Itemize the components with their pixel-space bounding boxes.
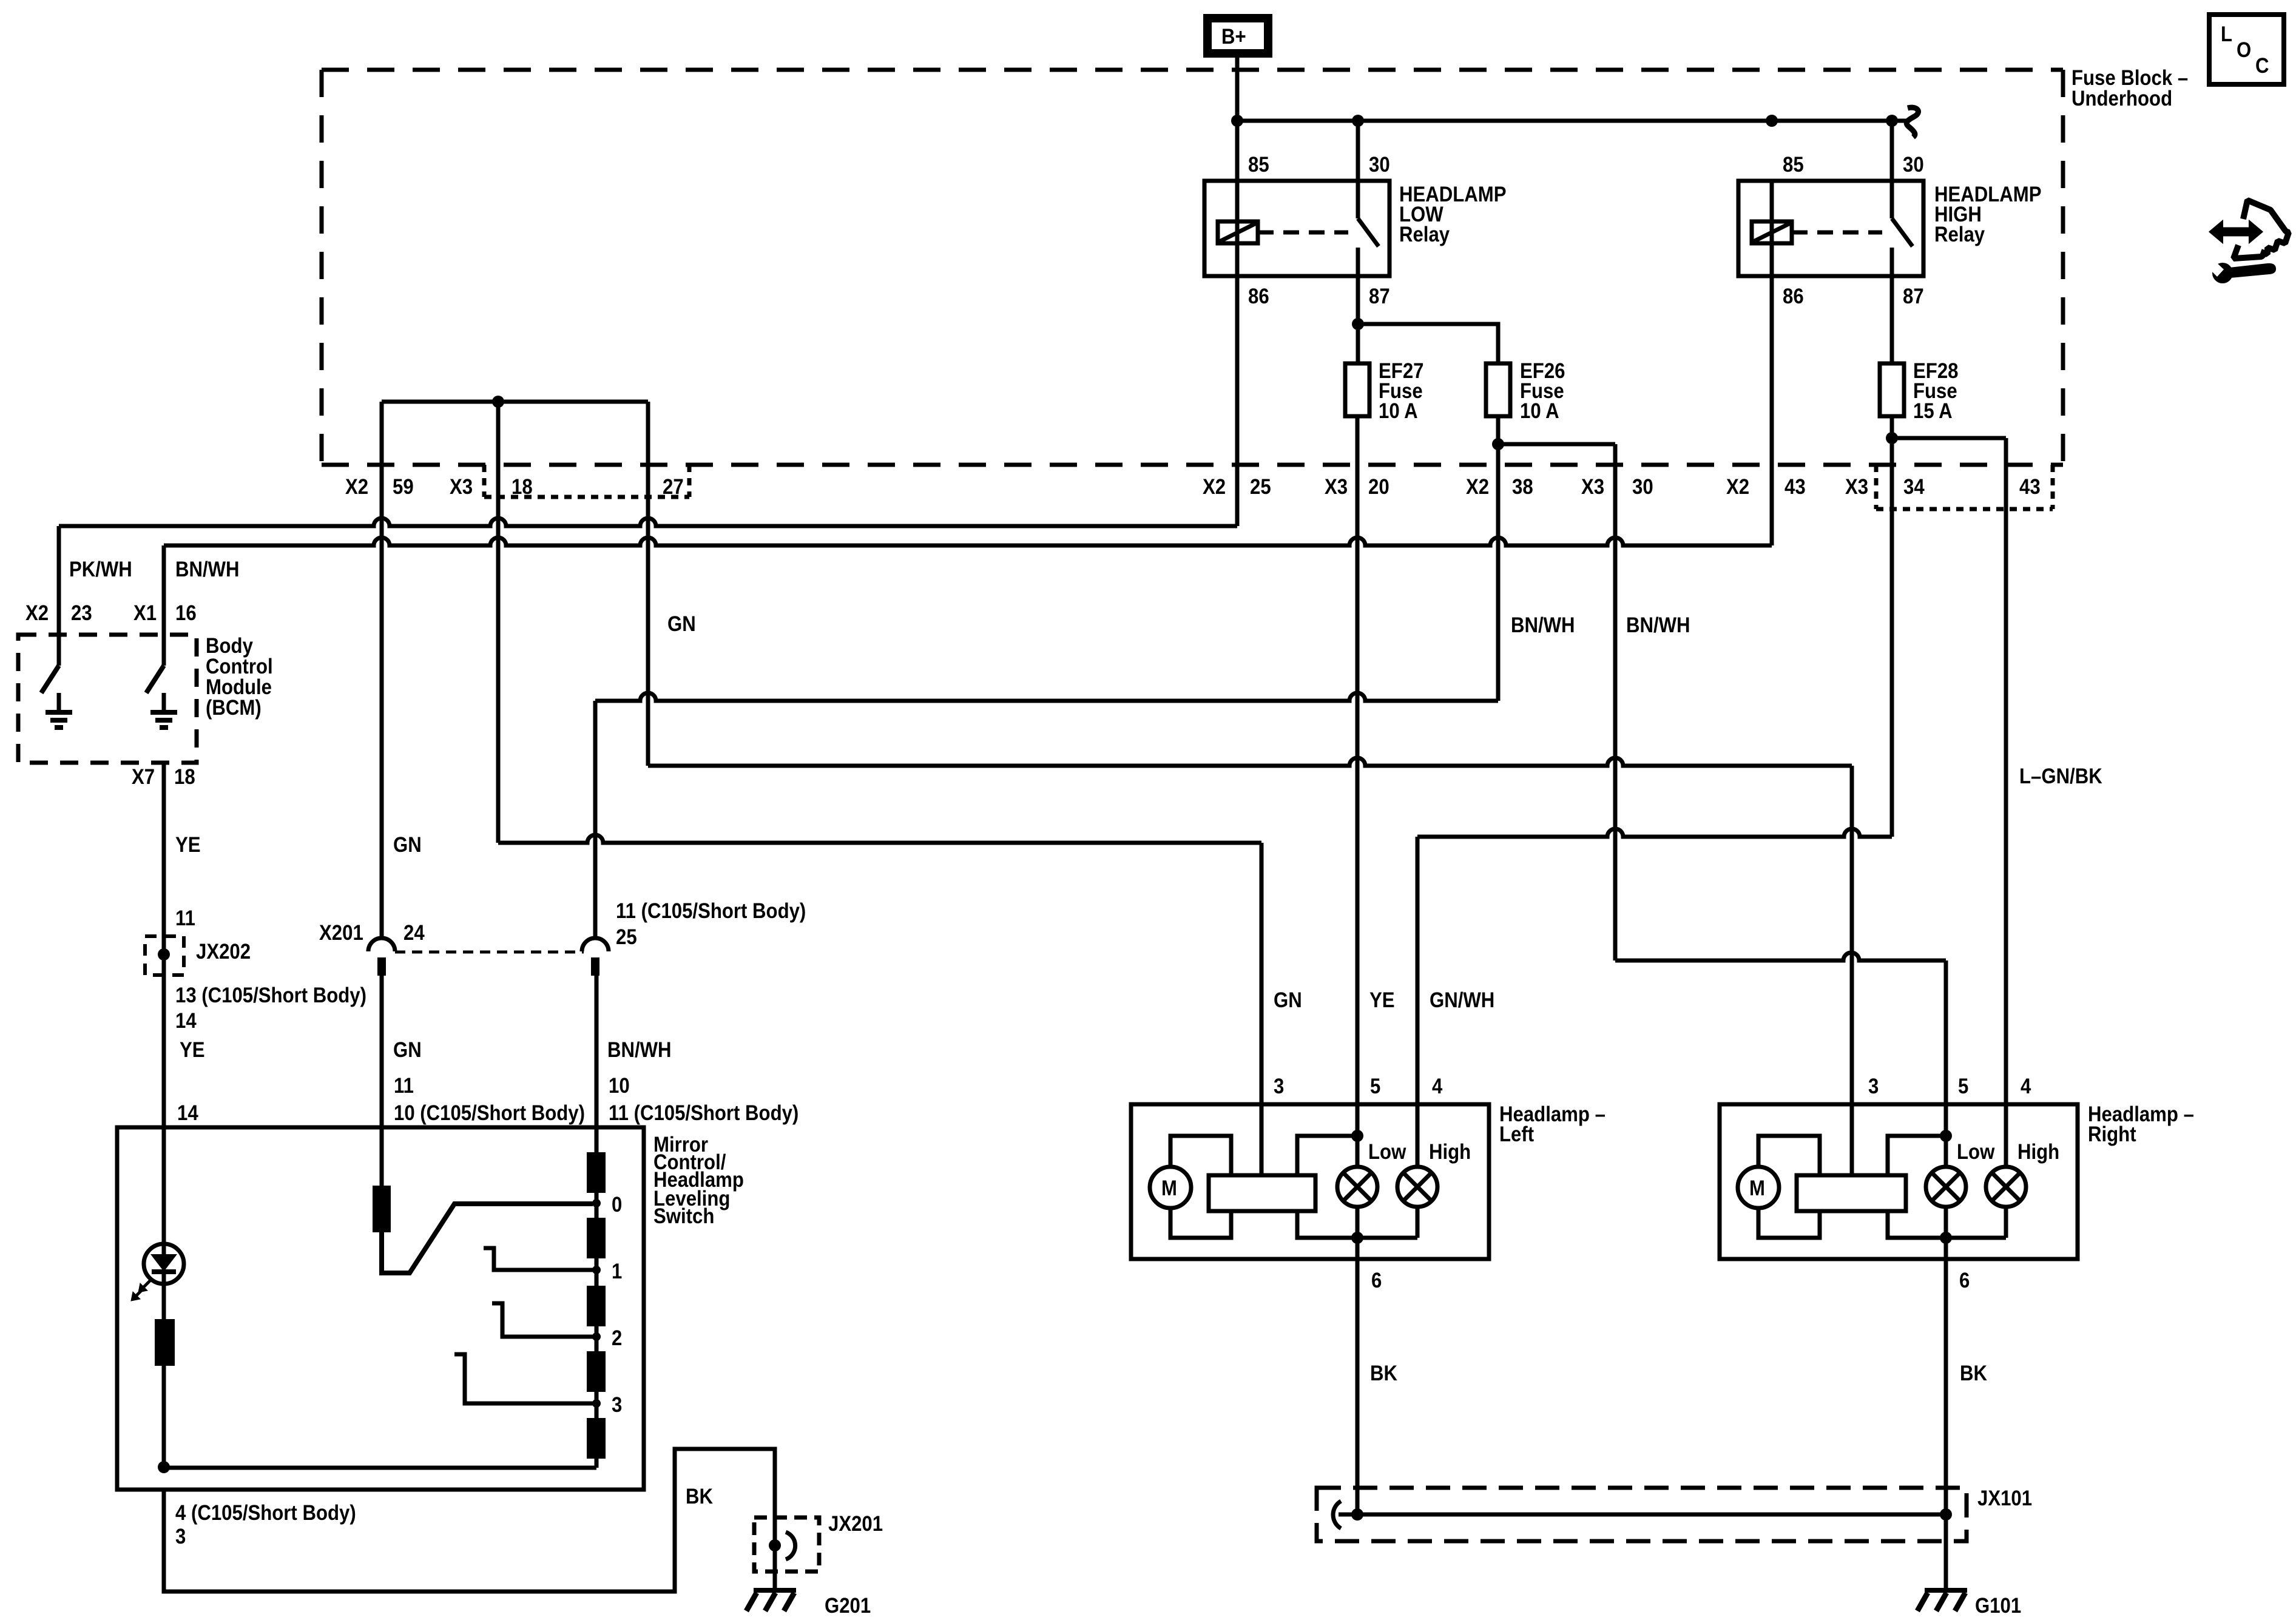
wire down to headlamp right pin 5 — [1944, 960, 1948, 1104]
switch wiper arm — [382, 1204, 593, 1273]
resistor chain segment 2 — [587, 1218, 606, 1258]
wire actuator top right to pin 5 node right — [1888, 1136, 1946, 1175]
svg-text:Low: Low — [1957, 1140, 1995, 1164]
wire X2 43 from relay high 86 down — [1770, 243, 1774, 545]
ground BCM high — [150, 693, 177, 727]
lamp low beam right — [1926, 1167, 1966, 1207]
wire motor left bottom loop — [1170, 1208, 1231, 1238]
wire actuator bottom right to ground node — [1297, 1211, 1357, 1238]
svg-text:X2: X2 — [1203, 475, 1226, 499]
node headlamp right feed — [1940, 1130, 1952, 1142]
svg-text:4 (C105/Short Body): 4 (C105/Short Body) — [175, 1501, 356, 1525]
wire right BK to G101 — [1944, 1514, 1948, 1590]
svg-text:L–GN/BK: L–GN/BK — [2019, 765, 2102, 788]
fuse EF27 — [1345, 359, 1424, 423]
wire YE pin 14 into LED — [162, 1127, 166, 1244]
wire pin 3 into actuator right — [1850, 1104, 1854, 1175]
svg-text:10 (C105/Short Body): 10 (C105/Short Body) — [394, 1101, 585, 1125]
body control module BCM dashed box — [18, 635, 197, 763]
svg-text:30: 30 — [1903, 153, 1924, 177]
wire actuator top right to pin 5 node — [1297, 1136, 1357, 1175]
wire EF26 branch east to X3 30 — [1498, 442, 1615, 447]
svg-text:YE: YE — [180, 1038, 205, 1062]
label left column — [175, 906, 366, 1033]
wire PK/WH down to BCM — [57, 526, 61, 666]
svg-text:10 A: 10 A — [1520, 399, 1559, 423]
node bridge junction 18 — [492, 396, 504, 408]
svg-text:30: 30 — [1632, 475, 1653, 499]
svg-text:Low: Low — [1368, 1140, 1406, 1164]
svg-text:85: 85 — [1248, 153, 1269, 177]
svg-text:6: 6 — [1959, 1269, 1970, 1292]
svg-text:C: C — [2255, 54, 2269, 78]
connector X201 24 — [319, 921, 584, 976]
svg-text:PK/WH: PK/WH — [69, 558, 132, 581]
wire BK headlamp right pin 6 down — [1944, 1238, 1948, 1514]
resistor chain segment 3 — [587, 1286, 606, 1326]
relay HEADLAMP LOW — [1204, 121, 1507, 308]
svg-text:GN: GN — [393, 833, 422, 857]
svg-text:Relay: Relay — [1934, 223, 1985, 246]
ground BCM low — [46, 693, 72, 727]
svg-text:(BCM): (BCM) — [206, 696, 262, 720]
wire EF28 branch east to 43 — [1892, 436, 2006, 441]
svg-text:6: 6 — [1371, 1269, 1382, 1292]
switch BCM low driver — [41, 666, 59, 693]
node junction below EF28 — [1886, 432, 1898, 444]
wire GN down to headlamp right pin 3 — [1850, 766, 1854, 1104]
wire X2 38 down from EF26 — [1496, 444, 1501, 701]
svg-text:10 A: 10 A — [1379, 399, 1418, 423]
fuse EF26 — [1486, 359, 1565, 423]
svg-text:15 A: 15 A — [1913, 399, 1953, 423]
svg-text:Underhood: Underhood — [2071, 87, 2172, 110]
switch BCM high driver — [146, 666, 164, 693]
svg-text:X3: X3 — [1845, 475, 1868, 499]
wire GN down to headlamp left pin 3 — [1260, 843, 1264, 1104]
svg-text:X3: X3 — [450, 475, 473, 499]
svg-text:11: 11 — [175, 906, 195, 930]
junction JX202 — [145, 936, 251, 975]
headlamp left box — [1131, 1104, 1489, 1259]
wire EF28 output — [1890, 416, 1894, 438]
svg-text:JX201: JX201 — [828, 1512, 883, 1536]
wire BN/WH pin 11 into resistor chain — [595, 1127, 599, 1152]
battery feed B+ — [1207, 18, 1268, 53]
svg-text:85: 85 — [1783, 153, 1804, 177]
svg-text:JX202: JX202 — [196, 940, 251, 964]
svg-text:X2: X2 — [25, 601, 49, 625]
svg-text:High: High — [2017, 1140, 2059, 1164]
wire B+ feed down — [1235, 58, 1240, 181]
wire battery bus — [1237, 119, 1908, 123]
svg-text:4: 4 — [1432, 1075, 1443, 1098]
wire relay high 87 to EF28 — [1890, 276, 1894, 363]
node bus junction 30 low — [1352, 115, 1364, 127]
wire chain seg — [595, 1258, 599, 1286]
svg-text:11 (C105/Short Body): 11 (C105/Short Body) — [616, 899, 806, 923]
relay low switch pin 30 — [1356, 121, 1360, 218]
svg-text:BN/WH: BN/WH — [1511, 613, 1575, 637]
node contact 1 — [592, 1266, 601, 1274]
LED light arrows — [131, 1279, 152, 1301]
svg-text:BK: BK — [1960, 1362, 1987, 1385]
svg-text:87: 87 — [1903, 285, 1924, 308]
node headlamp left ground — [1351, 1232, 1363, 1244]
label BCM pins — [25, 601, 273, 789]
connector 25 — [582, 899, 806, 976]
svg-text:18: 18 — [174, 765, 195, 789]
svg-text:X2: X2 — [345, 475, 368, 499]
svg-text:BN/WH: BN/WH — [175, 558, 240, 581]
wire H3 west to connector 25 — [595, 693, 1498, 701]
svg-text:30: 30 — [1369, 153, 1390, 177]
svg-text:86: 86 — [1783, 285, 1804, 308]
node chain YE junction — [158, 1461, 170, 1473]
wire down to headlamp left pin 4 — [1416, 837, 1420, 1104]
label BK wires — [1370, 1362, 1987, 1385]
label relay low pins — [1248, 153, 1507, 308]
wire GN pin 10 into wiper terminal — [380, 1127, 384, 1186]
svg-text:X2: X2 — [1726, 475, 1749, 499]
wire lamps to pin 6 right — [1946, 1207, 2006, 1238]
junction JX201 — [754, 1512, 883, 1571]
wire X2 59 down to X201 24 — [380, 402, 384, 938]
wire YE fuse EF27 to headlamp left pin 5 — [1356, 416, 1360, 1104]
switch throw contact 1 — [484, 1248, 596, 1270]
label Fuse Block - Underhood — [2071, 66, 2188, 110]
wire motor right bottom loop — [1758, 1208, 1820, 1238]
wire X3 18 down — [496, 402, 501, 843]
svg-text:25: 25 — [616, 925, 637, 949]
svg-text:GN/WH: GN/WH — [1430, 988, 1494, 1012]
wire pin 4 into high lamp right — [2004, 1104, 2008, 1167]
wire H2 bus to BCM X1 16 — [164, 538, 1772, 545]
svg-text:11: 11 — [394, 1074, 414, 1098]
svg-text:GN: GN — [393, 1038, 422, 1062]
node contact 3 — [592, 1399, 601, 1408]
wire X3 30 BN/WH down — [1613, 444, 1618, 960]
svg-text:B+: B+ — [1221, 25, 1246, 49]
svg-text:43: 43 — [1784, 475, 1806, 499]
svg-text:BK: BK — [1370, 1362, 1397, 1385]
node contact 0 — [592, 1199, 601, 1207]
svg-text:25: 25 — [1250, 475, 1271, 499]
LED illumination indicator — [144, 1244, 184, 1284]
svg-text:3: 3 — [612, 1393, 622, 1417]
junction block JX101 — [1317, 1487, 2032, 1541]
svg-text:16: 16 — [175, 601, 197, 625]
label mirror ground pins — [175, 1485, 713, 1548]
motor M headlamp left leveling — [1150, 1167, 1191, 1208]
wire pin 4 into high lamp — [1416, 1104, 1420, 1167]
motor M headlamp right leveling — [1738, 1167, 1779, 1208]
svg-text:87: 87 — [1369, 285, 1390, 308]
wire motor left top loop — [1170, 1136, 1231, 1175]
wire lamps to pin 6 — [1357, 1207, 1417, 1238]
svg-text:Switch: Switch — [653, 1204, 714, 1228]
svg-text:13 (C105/Short Body): 13 (C105/Short Body) — [175, 984, 366, 1007]
svg-text:G101: G101 — [1975, 1594, 2021, 1617]
wire BN/WH 25 to mirror switch — [595, 976, 599, 1127]
actuator headlamp left — [1209, 1175, 1315, 1211]
terminal GN wiper — [373, 1186, 391, 1232]
node bus junction 30 high — [1886, 115, 1898, 127]
label connector row — [345, 475, 2041, 499]
label headlamp left pins — [1274, 988, 1606, 1292]
svg-text:10: 10 — [609, 1074, 630, 1098]
svg-text:YE: YE — [175, 833, 201, 857]
resistor chain segment 4 — [587, 1351, 606, 1392]
wire GN east to headlamp left pin 3 — [498, 835, 1261, 843]
svg-text:BN/WH: BN/WH — [1626, 613, 1690, 637]
svg-text:O: O — [2237, 38, 2251, 62]
wire L-GN/BK down to headlamp right pin 4 — [2004, 438, 2008, 1104]
ground G101 — [1917, 1590, 2021, 1617]
svg-text:X201: X201 — [319, 921, 363, 945]
node headlamp left feed — [1351, 1130, 1363, 1142]
label wire colours mid — [177, 1038, 799, 1125]
wire chain seg — [595, 1193, 599, 1218]
wire chain bottom to YE — [164, 1459, 596, 1468]
wire H1 bus to BCM X2 23 — [59, 518, 1237, 526]
wire X3 34 down from EF28 — [1890, 438, 1894, 837]
node junction below EF26 — [1492, 438, 1504, 450]
aiming icon arrows and wrench — [2209, 200, 2289, 283]
svg-text:23: 23 — [71, 601, 92, 625]
svg-text:X2: X2 — [1466, 475, 1489, 499]
wire 87 branch to EF26 — [1358, 324, 1498, 363]
wire GN east to headlamp right pin 3 — [648, 758, 1852, 766]
svg-text:14: 14 — [175, 1009, 197, 1033]
svg-text:GN: GN — [1274, 988, 1302, 1012]
svg-text:X3: X3 — [1325, 475, 1348, 499]
svg-text:BK: BK — [686, 1485, 713, 1508]
svg-text:5: 5 — [1370, 1075, 1380, 1098]
wire pin 5 into low lamp right — [1944, 1104, 1948, 1167]
label headlamp right pins — [1868, 1075, 2194, 1292]
wire BN/WH east to headlamp right pin 5 — [1615, 953, 1946, 960]
wire pin 5 into low lamp — [1356, 1104, 1360, 1167]
wire GN/WH west to headlamp left pin 4 — [1417, 829, 1892, 837]
relay HEADLAMP HIGH — [1738, 121, 2042, 308]
label switch positions — [612, 1193, 622, 1417]
svg-text:5: 5 — [1958, 1075, 1968, 1098]
svg-text:L: L — [2221, 22, 2232, 46]
svg-text:86: 86 — [1248, 285, 1269, 308]
svg-text:X3: X3 — [1581, 475, 1604, 499]
headlamp right box — [1720, 1104, 2078, 1259]
svg-text:X7: X7 — [132, 765, 155, 789]
wire BN/WH down to BCM — [162, 545, 166, 666]
relay high coil wire pin 85 — [1770, 181, 1774, 276]
svg-text:14: 14 — [177, 1101, 198, 1125]
lamp high beam left — [1397, 1167, 1437, 1207]
svg-text:34: 34 — [1903, 475, 1925, 499]
wire GN X201 to mirror switch — [380, 976, 384, 1127]
node bus junction 85 high — [1766, 115, 1778, 127]
svg-text:1: 1 — [612, 1260, 622, 1283]
node contact 2 — [592, 1332, 601, 1341]
wire relay low 87 to fuses — [1356, 276, 1360, 324]
relay low actuation dashed — [1258, 231, 1348, 235]
svg-text:GN: GN — [667, 612, 696, 636]
wire X2 25 from relay low 86 down — [1235, 243, 1240, 526]
svg-text:20: 20 — [1368, 475, 1389, 499]
wire chain seg — [595, 1392, 599, 1418]
svg-text:38: 38 — [1512, 475, 1533, 499]
svg-text:0: 0 — [612, 1193, 622, 1217]
wire YE BCM X7 18 down to mirror switch — [162, 763, 166, 1127]
fuse block - underhood dashed box — [322, 70, 2063, 465]
svg-text:3: 3 — [175, 1525, 186, 1548]
svg-text:27: 27 — [663, 475, 684, 499]
actuator headlamp right — [1797, 1175, 1906, 1211]
resistor chain segment 1 — [587, 1152, 606, 1193]
svg-text:43: 43 — [2019, 475, 2041, 499]
wire EF26 output — [1496, 416, 1501, 444]
relay high coil — [1752, 221, 1792, 243]
ground G201 — [746, 1590, 871, 1617]
svg-text:Right: Right — [2088, 1122, 2136, 1146]
connector sub-box X3 34-43 dotted — [1876, 465, 2053, 509]
label relay high pins — [1783, 153, 2042, 308]
svg-text:M: M — [1161, 1176, 1177, 1200]
svg-text:24: 24 — [403, 921, 425, 945]
lamp high beam right — [1986, 1167, 2026, 1207]
relay high actuation dashed — [1792, 231, 1882, 235]
wire BN/WH down to connector 25 — [593, 701, 598, 938]
wire chain seg — [595, 1326, 599, 1351]
mirror control / headlamp leveling switch box — [117, 1127, 644, 1490]
svg-text:X1: X1 — [133, 601, 157, 625]
relay high switch pin 30 — [1890, 121, 1894, 218]
svg-text:3: 3 — [1274, 1075, 1284, 1098]
svg-text:Relay: Relay — [1399, 223, 1450, 246]
svg-text:BN/WH: BN/WH — [607, 1038, 672, 1062]
wire motor right top loop — [1758, 1136, 1820, 1175]
label wire colours upper — [69, 558, 2102, 857]
svg-text:JX101: JX101 — [1977, 1487, 2032, 1510]
node bus junction 85 low — [1231, 115, 1243, 127]
svg-text:2: 2 — [612, 1326, 622, 1350]
wire BK headlamp left pin 6 down — [1356, 1238, 1360, 1514]
svg-text:YE: YE — [1369, 988, 1395, 1012]
fuse EF28 — [1880, 359, 1959, 423]
svg-text:G201: G201 — [825, 1594, 871, 1617]
wire 87 down to EF27 — [1356, 324, 1360, 363]
switch throw contact 2 — [492, 1303, 596, 1337]
svg-text:High: High — [1429, 1140, 1471, 1164]
node junction below 87 — [1352, 318, 1364, 330]
wire actuator bottom right to ground node right — [1888, 1211, 1946, 1238]
svg-text:11 (C105/Short Body): 11 (C105/Short Body) — [609, 1101, 799, 1125]
node headlamp right ground — [1940, 1232, 1952, 1244]
svg-text:18: 18 — [512, 475, 533, 499]
wire pin 3 into actuator — [1260, 1104, 1264, 1175]
svg-text:59: 59 — [393, 475, 414, 499]
bridge bus X2 59 / X3 18 / 27 — [382, 400, 648, 404]
connector sub-box X3 18-27 dotted — [484, 465, 689, 497]
svg-text:4: 4 — [2021, 1075, 2031, 1098]
wire 27 down — [646, 402, 650, 766]
wire bus continuation squiggle — [1906, 107, 1918, 137]
resistor YE terminal — [155, 1284, 175, 1467]
switch throw contact 3 — [454, 1354, 596, 1403]
relay low coil wire pin 85 — [1235, 181, 1240, 276]
LOC reference box — [2209, 15, 2284, 84]
svg-text:3: 3 — [1868, 1075, 1879, 1098]
relay low coil — [1218, 221, 1258, 243]
svg-text:Left: Left — [1499, 1122, 1534, 1146]
wire BK mirror switch pin 3 to ground — [164, 1449, 775, 1593]
resistor chain segment 5 — [587, 1418, 606, 1459]
lamp low beam left — [1337, 1167, 1377, 1207]
label mirror switch — [653, 1133, 744, 1228]
svg-text:M: M — [1749, 1176, 1765, 1200]
